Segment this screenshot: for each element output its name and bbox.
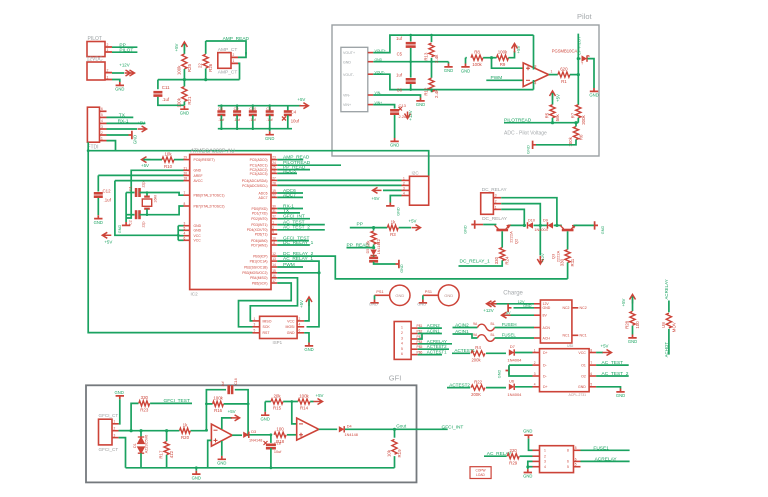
- svg-text:O1: O1: [581, 364, 586, 368]
- svg-text:GND: GND: [395, 293, 404, 298]
- op-amp power wires: [533, 35, 535, 69]
- svg-text:4: 4: [403, 191, 405, 195]
- resistor R26 22: [205, 41, 207, 54]
- net PP: [112, 46, 137, 48]
- net ACIN1 from X2: [418, 333, 442, 335]
- svg-text:PS1: PS1: [376, 290, 383, 294]
- capacitor C5 1uf: [410, 35, 412, 41]
- svg-text:ACIN2: ACIN2: [427, 323, 440, 328]
- power module 12V block: [540, 300, 572, 343]
- net RX-1: [277, 208, 303, 210]
- diode D7 1N4004: [509, 349, 514, 355]
- svg-text:4: 4: [535, 82, 537, 86]
- crystal gnd rail: [125, 193, 127, 223]
- ground under R8: [465, 58, 467, 64]
- svg-text:PC0(ADC0): PC0(ADC0): [250, 158, 268, 162]
- svg-text:ADC6: ADC6: [258, 191, 267, 195]
- wire divider to opamp + input: [492, 58, 524, 68]
- svg-text:8: 8: [575, 446, 577, 450]
- resistor R2 10k: [373, 228, 375, 231]
- svg-text:1N4148: 1N4148: [345, 433, 358, 437]
- opto input gnd bar: [506, 366, 509, 374]
- svg-text:PS1: PS1: [425, 290, 432, 294]
- svg-text:+5V: +5V: [104, 239, 112, 244]
- wire VOUT- to bottom rail: [373, 74, 533, 89]
- resistor R28 100: [630, 295, 636, 304]
- svg-text:R13: R13: [424, 52, 429, 61]
- svg-text:GND: GND: [523, 474, 532, 479]
- svg-text:GND: GND: [180, 110, 189, 115]
- svg-text:VCC: VCC: [287, 319, 295, 323]
- svg-text:1N4148: 1N4148: [377, 242, 381, 255]
- svg-text:PP: PP: [119, 42, 125, 48]
- svg-text:11: 11: [272, 241, 276, 245]
- svg-text:R22: R22: [474, 379, 483, 384]
- ground for PP divider: [396, 260, 399, 268]
- capacitor C13 2.2uf: [390, 109, 399, 112]
- svg-text:ACRELAY: ACRELAY: [595, 456, 618, 462]
- diode D10 1N4004: [523, 224, 526, 227]
- net PP_READ: [277, 169, 310, 171]
- svg-text:GND: GND: [416, 102, 425, 107]
- svg-text:2.4k: 2.4k: [434, 54, 439, 63]
- svg-text:5: 5: [567, 465, 569, 469]
- svg-text:VIN+: VIN+: [343, 103, 351, 107]
- svg-text:1: 1: [272, 221, 274, 225]
- svg-text:22: 22: [272, 193, 276, 197]
- svg-text:6: 6: [590, 372, 592, 376]
- supply +5V above R5: [550, 91, 556, 100]
- capacitor C18 10uf: [270, 435, 272, 443]
- svg-text:+5V: +5V: [299, 300, 304, 308]
- svg-text:1: 1: [551, 70, 553, 74]
- node row under R25/R26: [158, 79, 240, 81]
- svg-text:C6: C6: [397, 88, 403, 93]
- svg-text:20k: 20k: [273, 393, 281, 398]
- svg-text:ACTEST2: ACTEST2: [427, 344, 447, 349]
- svg-text:Q2: Q2: [514, 238, 519, 244]
- svg-text:18: 18: [184, 177, 188, 181]
- ground for TVS: [590, 88, 598, 91]
- capacitor C2 22p: [126, 214, 134, 216]
- svg-text:GND: GND: [400, 264, 404, 273]
- capacitor C7: [373, 256, 375, 257]
- svg-text:ACN: ACN: [543, 326, 551, 330]
- svg-text:GND: GND: [616, 393, 625, 398]
- svg-text:5: 5: [590, 383, 592, 387]
- svg-text:10uf: 10uf: [291, 119, 300, 124]
- net AMP_READ top: [206, 41, 246, 55]
- svg-text:D5: D5: [366, 249, 370, 254]
- svg-text:COPW: COPW: [476, 469, 486, 473]
- svg-text:1uf: 1uf: [396, 36, 403, 41]
- svg-text:+12V: +12V: [540, 253, 545, 263]
- svg-text:8: 8: [184, 202, 186, 206]
- svg-text:GND: GND: [343, 60, 351, 64]
- pad PS1: [390, 285, 410, 305]
- svg-text:100: 100: [635, 321, 640, 329]
- diode D3 1N4148: [232, 434, 242, 436]
- net PILOTREAD: [277, 164, 341, 166]
- wire AMP_CT pin2 to AMP_READ: [238, 52, 246, 57]
- resistor R8 100k: [466, 57, 467, 59]
- svg-text:6: 6: [575, 457, 577, 461]
- svg-text:AZ23C5V6: AZ23C5V6: [145, 435, 149, 454]
- svg-text:PC5(ADC5/SCL): PC5(ADC5/SCL): [242, 184, 267, 188]
- svg-text:R26: R26: [208, 63, 213, 72]
- svg-text:+12V: +12V: [483, 308, 493, 313]
- ground under C13: [390, 138, 398, 141]
- svg-text:220: 220: [510, 448, 518, 453]
- svg-text:GND: GND: [589, 93, 598, 98]
- op-amp U1 pilot driver: [523, 63, 549, 87]
- capacitor C6 1uf: [410, 62, 412, 78]
- svg-text:DC_RELAY: DC_RELAY: [482, 187, 508, 193]
- svg-text:100k: 100k: [213, 396, 223, 401]
- load box: [470, 467, 491, 479]
- svg-text:PD2(INT0): PD2(INT0): [251, 217, 267, 221]
- svg-text:6: 6: [299, 329, 301, 333]
- svg-text:D7: D7: [510, 344, 516, 349]
- svg-text:100k: 100k: [176, 97, 181, 107]
- resistor R12 2.4k: [431, 62, 433, 78]
- svg-text:GND: GND: [601, 226, 605, 235]
- svg-text:U8: U8: [661, 322, 666, 328]
- svg-text:GND: GND: [498, 370, 502, 379]
- resistor R20 1k: [180, 428, 191, 433]
- svg-text:D+: D+: [543, 351, 548, 355]
- svg-text:2: 2: [299, 317, 301, 321]
- diode D9 1N4004: [534, 224, 548, 226]
- svg-text:AMP_CT: AMP_CT: [218, 47, 238, 53]
- svg-text:U$5: U$5: [567, 344, 573, 348]
- svg-text:GND: GND: [133, 135, 138, 144]
- svg-text:SCK: SCK: [263, 325, 271, 329]
- supply +12V down arrow: [537, 256, 543, 264]
- svg-text:4: 4: [534, 383, 536, 387]
- svg-text:VCC: VCC: [578, 351, 586, 355]
- svg-text:GND: GND: [192, 475, 201, 480]
- svg-text:5: 5: [401, 347, 403, 351]
- ground in pilot box: [448, 62, 450, 64]
- svg-text:VOUT-: VOUT-: [343, 73, 355, 77]
- svg-text:15: 15: [272, 269, 276, 273]
- opto GND: [596, 387, 620, 389]
- ground left of Q2: [471, 220, 474, 228]
- net AMP_READ: [277, 159, 303, 161]
- svg-text:GND: GND: [444, 68, 453, 73]
- svg-text:29: 29: [184, 156, 188, 160]
- svg-text:GND: GND: [369, 301, 378, 306]
- ground on FTDI: [107, 134, 129, 136]
- feedback R16 100k: [206, 404, 212, 430]
- svg-text:GFCI_CT: GFCI_CT: [99, 413, 119, 418]
- svg-text:1: 1: [534, 348, 536, 352]
- bottom rail GFI: [126, 467, 395, 469]
- wire pin15 MOSI: [277, 272, 319, 274]
- wire relay pin1: [501, 209, 524, 225]
- net PWM: [277, 266, 303, 268]
- svg-text:6: 6: [401, 352, 403, 356]
- svg-text:200k: 200k: [471, 358, 481, 363]
- svg-text:4: 4: [544, 465, 546, 469]
- svg-text:FTDI: FTDI: [87, 145, 98, 151]
- divider to op-amp2: [292, 402, 297, 424]
- ISP +5V: [304, 316, 309, 321]
- svg-text:GND: GND: [265, 136, 274, 141]
- svg-text:ACTEST1: ACTEST1: [427, 350, 447, 355]
- +5V rail over cap bank: [218, 105, 301, 107]
- net ACTEST1 from X2: [418, 354, 442, 356]
- svg-text:C9: C9: [234, 107, 239, 111]
- wire pin3 to bottom rail: [119, 438, 126, 468]
- svg-text:MOV: MOV: [671, 322, 676, 332]
- svg-text:100k: 100k: [498, 50, 508, 55]
- svg-text:100k: 100k: [472, 62, 482, 67]
- wire AMP_CT pin1 down to node row: [238, 63, 240, 79]
- svg-text:PC3(ADC3): PC3(ADC3): [250, 172, 268, 176]
- zener diode D5: [373, 251, 375, 253]
- diode U6 1N4004: [509, 384, 514, 390]
- svg-text:+5V: +5V: [409, 218, 417, 223]
- resistor R6 100k: [575, 123, 577, 127]
- svg-text:10: 10: [272, 237, 276, 241]
- svg-text:3: 3: [495, 194, 497, 198]
- svg-text:21: 21: [184, 166, 188, 170]
- svg-text:3: 3: [403, 186, 405, 190]
- capacitor C4 10uf: [287, 106, 289, 111]
- op-amp1 +5V: [222, 418, 232, 429]
- svg-text:5: 5: [184, 226, 186, 230]
- resistor R9 100k: [497, 55, 509, 60]
- svg-text:6: 6: [101, 107, 103, 111]
- svg-text:R24: R24: [505, 256, 510, 265]
- svg-text:.1uf: .1uf: [234, 118, 241, 122]
- net AC_RELAY_1 wire down to ISP: [277, 261, 319, 327]
- svg-text:GND: GND: [464, 225, 468, 234]
- ground on bottom rail: [195, 468, 197, 471]
- net SCL to I2C: [277, 184, 401, 186]
- svg-text:12: 12: [272, 252, 276, 256]
- ground for R6: [533, 141, 536, 149]
- wire R9 to +5V: [508, 51, 514, 58]
- svg-text:3: 3: [101, 125, 103, 129]
- wire VCC/GND bus: [178, 225, 183, 227]
- svg-text:R10: R10: [164, 164, 173, 169]
- svg-text:AC_TEST: AC_TEST: [283, 220, 305, 226]
- svg-text:1N4004: 1N4004: [507, 358, 522, 363]
- ISP GND: [304, 333, 309, 343]
- op-amp IC3B: [297, 418, 319, 440]
- svg-text:D4: D4: [347, 425, 352, 429]
- resistor R11 330: [567, 231, 569, 249]
- svg-text:1: 1: [233, 59, 235, 63]
- svg-text:100k: 100k: [299, 393, 309, 398]
- svg-text:PB4(MISO): PB4(MISO): [250, 276, 267, 280]
- svg-text:9A: 9A: [473, 322, 478, 326]
- opto coupler U7 ACPL-2731: [540, 349, 590, 392]
- wire crystal bottom to pin8: [140, 206, 184, 215]
- svg-text:GND: GND: [217, 461, 226, 466]
- svg-text:C20: C20: [249, 107, 256, 111]
- svg-text:GND: GND: [444, 293, 453, 298]
- resistor R21 100k: [182, 87, 187, 102]
- svg-text:1: 1: [107, 48, 109, 52]
- resistor R24 330: [501, 231, 503, 247]
- svg-text:AMP_READ: AMP_READ: [223, 36, 250, 42]
- svg-text:R8: R8: [474, 50, 480, 55]
- svg-text:C1: C1: [129, 186, 133, 191]
- svg-text:GND: GND: [94, 220, 103, 225]
- svg-text:8: 8: [535, 65, 537, 69]
- svg-text:100: 100: [276, 427, 284, 432]
- svg-text:1N4004: 1N4004: [534, 228, 547, 232]
- svg-text:4: 4: [101, 119, 103, 123]
- svg-text:PILOT: PILOT: [119, 48, 133, 54]
- transistor Q3 2222A: [557, 224, 562, 226]
- svg-text:13: 13: [272, 257, 276, 261]
- svg-text:+5V: +5V: [516, 45, 521, 53]
- svg-text:10k: 10k: [164, 151, 172, 156]
- ground under cap bank: [269, 129, 271, 132]
- svg-text:VOUT+: VOUT+: [343, 51, 355, 55]
- svg-text:GND: GND: [194, 224, 202, 228]
- net ADC6: [277, 192, 303, 194]
- svg-text:Gout: Gout: [396, 424, 407, 429]
- wire AVCC to +5V: [115, 180, 184, 182]
- net ACIN2 from X2: [418, 327, 442, 329]
- svg-text:VCC: VCC: [194, 234, 202, 238]
- svg-text:Charge: Charge: [503, 291, 523, 297]
- svg-text:GND: GND: [390, 143, 399, 148]
- net CP-PILOT vertical: [577, 34, 579, 105]
- svg-text:3: 3: [254, 323, 256, 327]
- svg-text:GND: GND: [397, 207, 401, 216]
- op-amp1 GND: [221, 441, 223, 456]
- svg-text:D9: D9: [543, 219, 548, 223]
- resistor R13 2.4k: [431, 35, 433, 42]
- wire VOUT+ to top rail: [373, 35, 533, 53]
- svg-text:GFCI_INT: GFCI_INT: [283, 214, 305, 220]
- svg-text:31: 31: [272, 209, 276, 213]
- svg-text:GFCI_CT: GFCI_CT: [99, 447, 119, 452]
- svg-text:R11: R11: [570, 258, 575, 266]
- resistor R18 100: [274, 432, 286, 437]
- svg-text:1: 1: [401, 326, 403, 330]
- svg-text:PB2(SS/OC1B): PB2(SS/OC1B): [244, 265, 267, 269]
- net TX: [107, 116, 134, 118]
- svg-text:100k: 100k: [176, 65, 181, 75]
- I2C +5V: [383, 189, 402, 191]
- net GFCI_INT: [277, 218, 310, 220]
- svg-text:R3: R3: [390, 232, 396, 237]
- svg-text:+5V: +5V: [137, 121, 145, 126]
- svg-text:56k: 56k: [555, 113, 560, 121]
- svg-text:NC2: NC2: [562, 306, 569, 310]
- connector DC_RELAY: [481, 193, 494, 215]
- wire VIN- to ground: [373, 95, 420, 98]
- connector 12VDC: [87, 62, 105, 80]
- svg-text:2: 2: [401, 331, 403, 335]
- svg-text:8V: 8V: [543, 314, 548, 318]
- svg-text:2: 2: [534, 361, 536, 365]
- svg-text:22p: 22p: [142, 222, 146, 228]
- svg-text:FUSEH: FUSEH: [502, 322, 517, 327]
- connector FTDI: [87, 107, 99, 142]
- net FUSE1: [581, 449, 630, 451]
- resistor R1 620: [549, 74, 558, 76]
- svg-text:+12V: +12V: [408, 110, 413, 120]
- svg-text:PD1(TXD): PD1(TXD): [252, 211, 268, 215]
- ground below 12VDC: [112, 80, 120, 83]
- svg-text:D+: D+: [543, 385, 548, 389]
- +5V vertical with arrow: [115, 181, 178, 236]
- svg-text:R6: R6: [579, 134, 584, 140]
- net ACTEST2 from X2: [418, 348, 449, 350]
- resistor R14 100k: [283, 401, 298, 403]
- svg-text:+5V: +5V: [297, 97, 305, 102]
- svg-text:ADC7: ADC7: [283, 192, 296, 198]
- connector I2C: [410, 176, 429, 205]
- net DC_RELAY_2 long wire: [277, 256, 567, 279]
- svg-text:R28: R28: [625, 320, 630, 329]
- svg-text:2: 2: [107, 68, 109, 72]
- wire pin16 MISO: [250, 278, 297, 321]
- svg-text:620: 620: [560, 66, 568, 71]
- svg-text:6: 6: [567, 460, 569, 464]
- svg-text:R21: R21: [187, 96, 192, 105]
- svg-text:ACHOT: ACHOT: [664, 342, 669, 358]
- svg-text:R5: R5: [545, 112, 550, 118]
- net ACRELAY out: [581, 460, 630, 462]
- svg-text:23: 23: [272, 156, 276, 160]
- connector GFCI_CT: [99, 419, 113, 445]
- svg-text:3: 3: [544, 460, 546, 464]
- svg-text:5: 5: [101, 113, 103, 117]
- net ADC7: [277, 196, 303, 198]
- svg-text:1: 1: [101, 136, 103, 140]
- svg-text:7: 7: [184, 191, 186, 195]
- svg-text:1: 1: [544, 449, 546, 453]
- svg-text:6: 6: [184, 236, 186, 240]
- svg-text:5: 5: [575, 463, 577, 467]
- svg-text:3: 3: [184, 222, 186, 226]
- svg-text:200k: 200k: [581, 114, 586, 124]
- svg-text:GND: GND: [194, 169, 202, 173]
- svg-text:2: 2: [403, 181, 405, 185]
- svg-text:GND: GND: [261, 416, 270, 421]
- svg-text:PD7(AIN1): PD7(AIN1): [251, 243, 267, 247]
- svg-text:GND: GND: [115, 87, 124, 92]
- svg-text:D1: D1: [133, 443, 137, 448]
- svg-text:3: 3: [114, 434, 116, 438]
- ground for R15: [264, 402, 266, 412]
- capacitor C8 .1uf: [220, 106, 222, 111]
- driver pins 3-4 to GND: [528, 461, 533, 467]
- resistor R19 10k: [394, 429, 396, 437]
- IC2 right pins: [271, 159, 277, 161]
- svg-text:AMP_READ: AMP_READ: [283, 155, 310, 161]
- svg-text:NC1: NC1: [580, 334, 587, 338]
- net SDA to I2C: [277, 179, 401, 181]
- svg-text:4: 4: [401, 341, 403, 345]
- connector X2 AC input: [394, 322, 411, 360]
- svg-text:1: 1: [114, 420, 116, 424]
- svg-text:R14: R14: [300, 406, 309, 411]
- svg-text:.1uf: .1uf: [249, 118, 256, 122]
- svg-text:24: 24: [272, 161, 276, 165]
- svg-text:1N4148: 1N4148: [249, 439, 262, 443]
